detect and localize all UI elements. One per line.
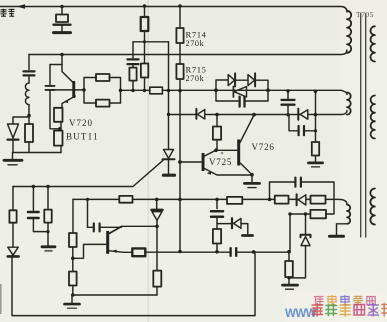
transistor V726 — [237, 140, 240, 166]
resistor R10 column x=217 upper — [216, 115, 218, 127]
sub-loop top wire y=41.8 — [133, 41, 169, 43]
diode VD6 (points left) + ground G6 — [217, 223, 231, 225]
columns under rail186.5: cap x=33.4 and resistor x=48 — [32, 187, 34, 211]
resistor R1 — [28, 117, 30, 124]
wire: rail y=199.4 — [73, 198, 334, 200]
resistor R3 (emitter chain lower) — [54, 131, 63, 146]
整流 label (hand-drawn dense glyphs) — [1, 9, 15, 16]
winding W3 — [334, 199, 347, 204]
second row y=214 — [290, 213, 310, 215]
svg-text:R714: R714 — [186, 30, 207, 40]
left branch: wire from rail54 down — [28, 55, 30, 70]
diode VD5 on rail 114.5 (points left) — [197, 110, 204, 120]
ground G7 — [71, 295, 73, 303]
wire: top rail y=6.5 — [0, 7, 347, 13]
core — [361, 14, 366, 238]
snubber loop x=289..315.5 with cap — [315, 92, 317, 131]
column x=133: cap C3 + resistor R6 — [132, 42, 134, 58]
resistor R12 (emitter, bold) — [132, 248, 145, 256]
horizontal resistor R9 on rail 90.7 — [150, 87, 163, 94]
transistor V725 — [180, 161, 202, 163]
watermark row1: 广电电器网 (fake glyphs, stroke style) — [315, 296, 376, 306]
bypass cap row y=182 — [270, 182, 295, 199]
svg-text:270k: 270k — [186, 39, 205, 48]
wire: rail y=54.5 — [29, 50, 347, 55]
wire: x=62 column to V720 — [61, 55, 63, 65]
transformer T705: winding W1 — [347, 11, 351, 53]
ground G4 — [309, 161, 323, 164]
wire: collector diag — [62, 65, 73, 83]
diode VD10 — [8, 247, 18, 255]
wire: rail y=295 — [73, 294, 157, 296]
zener VD9 column x=305.5 — [305, 214, 307, 234]
inductor L1 — [28, 77, 30, 84]
wire: rail y=114.5 — [169, 111, 348, 115]
capacitor C1 plates — [24, 71, 35, 75]
svg-text:R715: R715 — [186, 65, 207, 75]
diode VD7 column x=157 — [156, 199, 158, 208]
ground G1 — [12, 153, 14, 159]
resistor R715 — [176, 64, 183, 79]
svg-text:V725: V725 — [209, 157, 232, 167]
ground G8 — [283, 284, 298, 287]
resistor R17 column x=289 — [288, 252, 290, 261]
wire: rail y=252 — [145, 251, 289, 253]
transistor V720 BUT11 — [72, 81, 75, 98]
secondary S2 — [371, 96, 375, 139]
resistor R18 column x=12 — [12, 187, 14, 211]
column x=168.5 down to thyristor — [168, 42, 170, 150]
secondary S3 — [370, 189, 375, 225]
wire: node to diode/resistor pair — [13, 117, 29, 124]
svg-text:BUT11: BUT11 — [66, 132, 99, 142]
resistor R14 on rail199 — [227, 197, 242, 204]
thyristor VS1 — [164, 150, 174, 159]
wire: bottom node y=152.5 — [13, 152, 61, 154]
bottom mid column x=217: cap + resistor — [216, 199, 218, 208]
secondary S1 — [371, 26, 375, 61]
svg-text:*: * — [221, 152, 224, 158]
column x=144.5: resistor R7 (top) — [144, 6, 146, 17]
watermark halo — [283, 292, 387, 322]
paper crease — [147, 0, 149, 322]
svg-text:V720: V720 — [69, 118, 93, 128]
resistor R13 on rail199 — [119, 196, 132, 203]
parallel resistor loop R4/R5 — [84, 78, 96, 90]
capacitor C-top column x=62 (electrolytic to bar) — [61, 7, 63, 15]
arrow on top rail — [17, 4, 26, 9]
wire: rail y=186.5 + thyristor gate diagonal — [13, 160, 163, 186]
cap C5 at V727 — [87, 199, 89, 227]
transistor V727 (bottom left) — [106, 231, 109, 254]
left bottom column x=72.5 — [72, 199, 74, 233]
wire: bottom rail y=315.6 — [12, 252, 255, 316]
winding W2 — [347, 92, 351, 114]
resistor R714 column x=180 — [179, 6, 181, 28]
resistor R8 — [141, 64, 148, 78]
diode network between (216,90.5) and (268,90.5) — [216, 80, 228, 90]
snubber cap column x=288 — [287, 91, 289, 99]
watermark row2: www + colorful big glyphs — [285, 308, 317, 320]
resistor R11 — [315, 131, 317, 142]
svg-text:270k: 270k — [186, 74, 205, 83]
left edge smudge — [0, 284, 2, 314]
diode VD1 (down) — [8, 124, 19, 138]
ground G3 — [245, 182, 260, 185]
svg-text:T705: T705 — [356, 10, 374, 19]
diode VD4 on rail 114.5 (points left) — [300, 110, 308, 119]
resistor R2 (emitter chain upper) — [54, 108, 63, 122]
svg-text:V726: V726 — [252, 142, 275, 152]
ground G5 — [330, 235, 344, 238]
capacitor C2 (base) — [46, 86, 55, 90]
wire: rail y=90.7 (long middle rail) — [121, 90, 348, 94]
right component row y=199.4: R15, VD8, R16 — [275, 196, 289, 204]
capacitor C6 on rail 252 — [231, 247, 237, 257]
